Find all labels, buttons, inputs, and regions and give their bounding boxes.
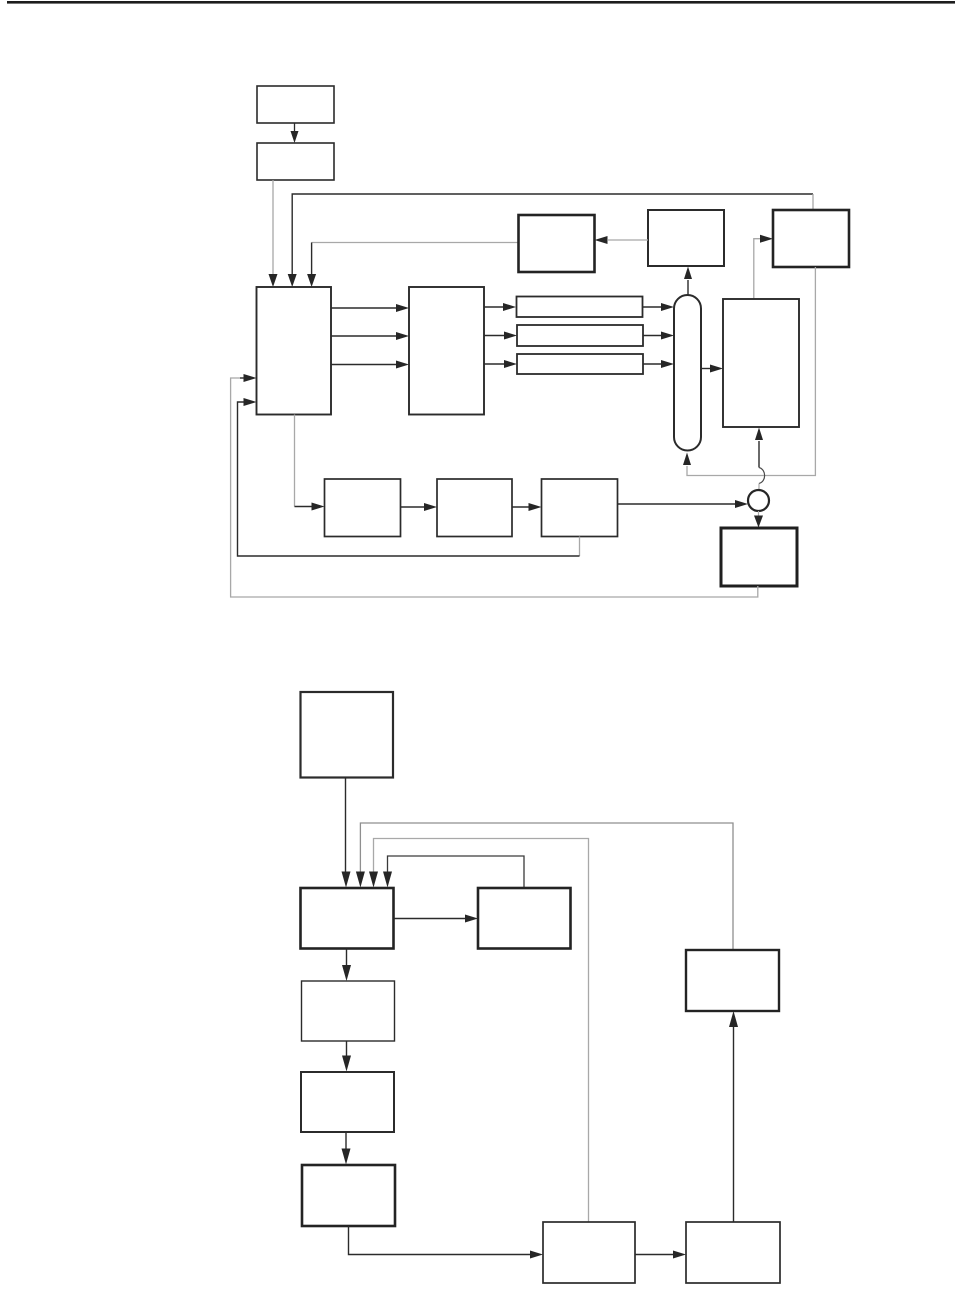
block M <box>301 692 394 778</box>
block E <box>723 299 799 427</box>
arrow N to O <box>394 918 466 920</box>
block K <box>542 479 618 537</box>
block D <box>409 287 484 415</box>
arrow I to J <box>401 506 425 508</box>
block J <box>437 479 512 537</box>
bar 2 <box>517 325 643 346</box>
arrow bar1 to capsule <box>643 306 662 308</box>
wire F to C (gray horizontal, black drop) <box>312 242 519 244</box>
block T <box>686 1222 780 1283</box>
block Q <box>301 1072 394 1132</box>
block C <box>257 287 332 415</box>
bar 1 <box>517 297 643 318</box>
bar 3 <box>517 354 643 374</box>
wire top long to C <box>292 194 813 275</box>
arrow N to P <box>346 949 348 967</box>
arrow G to F (gray) <box>608 239 648 241</box>
wire B to C (gray) <box>272 180 274 275</box>
block B <box>257 143 334 180</box>
arrow bar2 to capsule <box>643 335 661 337</box>
circle junction <box>748 490 769 511</box>
wire top corner into H (gray) <box>812 194 814 210</box>
block A <box>257 86 334 123</box>
capsule <box>674 295 701 451</box>
block S <box>543 1222 635 1283</box>
arrow Q to R <box>345 1132 347 1149</box>
top rule <box>7 1 955 4</box>
arrow S to T <box>635 1254 673 1256</box>
wire circle to E with hop <box>758 441 760 468</box>
block O <box>478 888 571 949</box>
arrow P to Q <box>346 1041 348 1057</box>
arrow circle to L <box>758 511 760 517</box>
block I <box>325 479 401 537</box>
wire A to B <box>294 123 296 133</box>
wire T to U <box>733 1026 735 1222</box>
wire S feedback to N (gray) <box>374 839 589 1222</box>
arrow bar3 to capsule <box>643 363 661 365</box>
arrow C to D 1 <box>331 307 396 309</box>
arrow C to D 3 <box>331 364 396 366</box>
block N <box>301 888 394 949</box>
wire inner feedback K to C <box>579 537 581 557</box>
wire O feedback to N (dark) <box>388 856 525 888</box>
arrow D to bar3 <box>484 363 504 365</box>
block R <box>302 1165 395 1226</box>
block H <box>773 210 849 267</box>
block G <box>648 210 724 266</box>
block L <box>721 528 797 586</box>
wire M to N <box>345 778 347 873</box>
wire C to I <box>294 415 296 507</box>
block P <box>302 981 395 1041</box>
arrow J to K <box>512 506 529 508</box>
block F <box>519 215 595 272</box>
wire E to H (gray) <box>754 239 760 299</box>
wire U feedback to N (gray) <box>360 823 733 950</box>
wire capsule to G <box>687 280 689 295</box>
arrow K to circle <box>618 503 736 505</box>
wire outer feedback L to C (gray) <box>231 378 758 597</box>
wire H down to capsule bottom (gray) <box>687 267 815 476</box>
arrow C to D 2 <box>331 335 396 337</box>
wire R to S <box>349 1226 531 1255</box>
block U <box>686 950 779 1011</box>
arrow D to bar2 <box>484 335 504 337</box>
arrow D to bar1 <box>484 306 503 308</box>
arrow capsule to E <box>701 368 710 370</box>
